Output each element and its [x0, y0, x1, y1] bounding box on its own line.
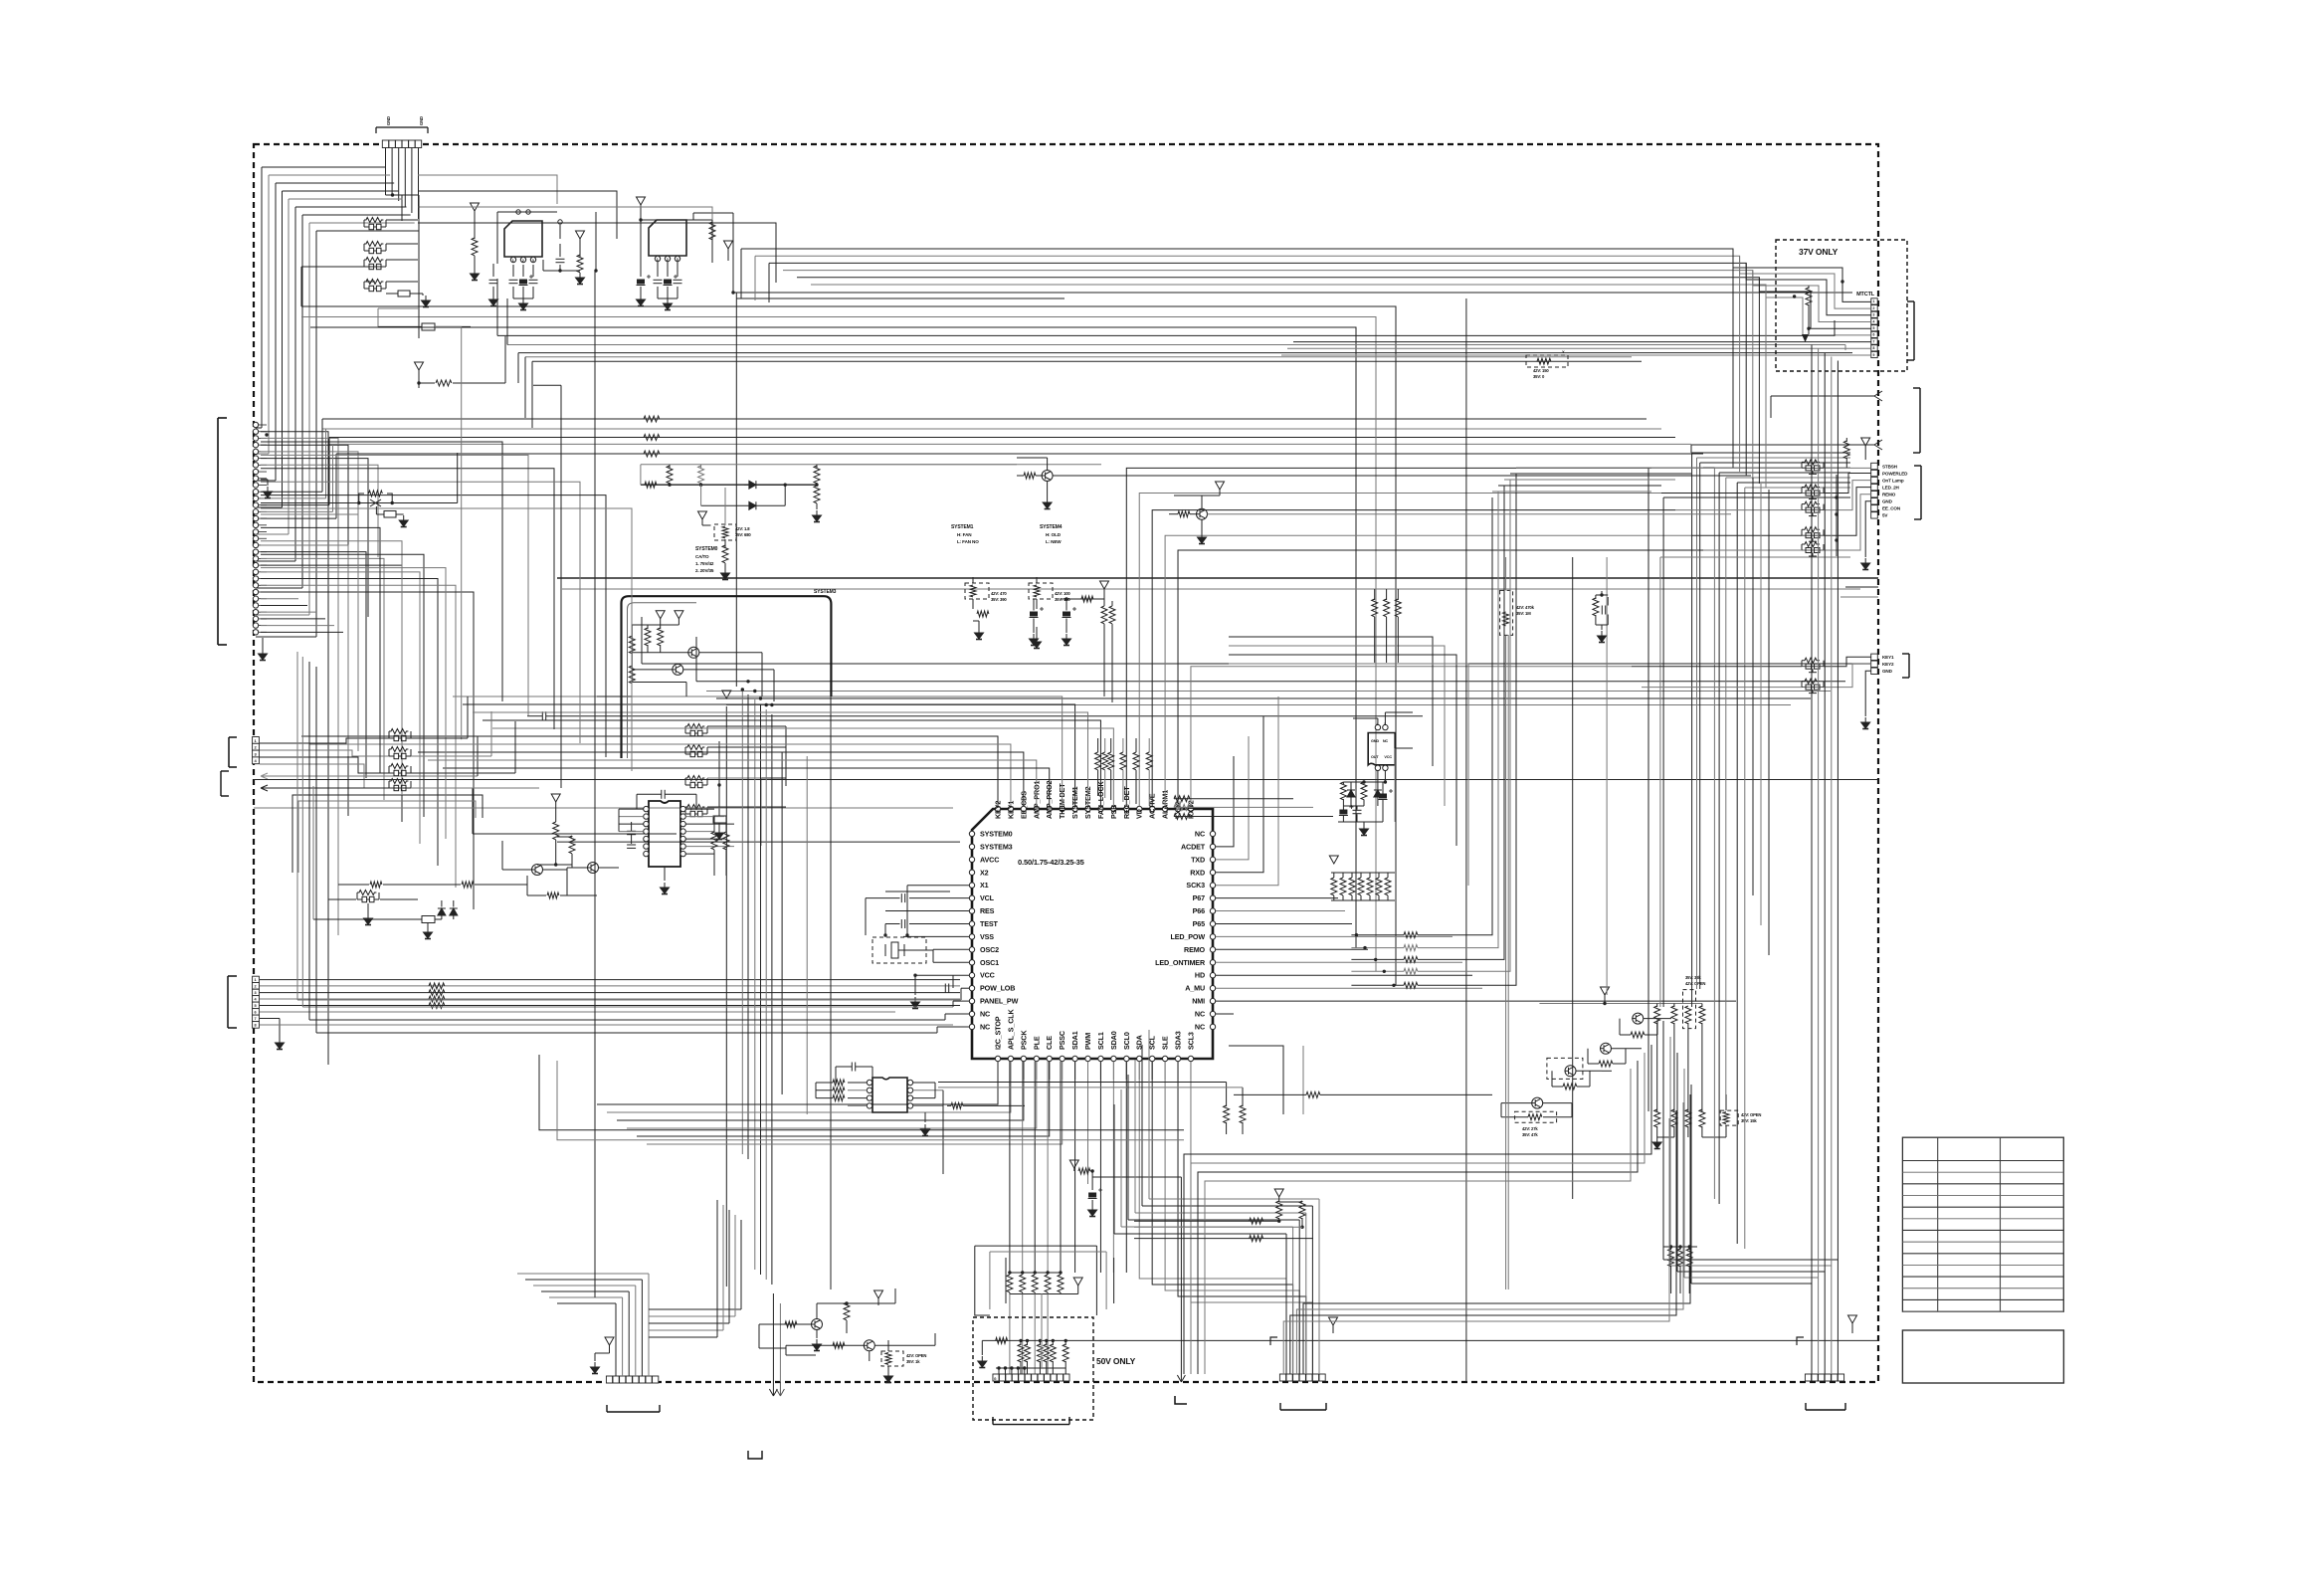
svg-text:KEY1: KEY1	[1882, 655, 1894, 660]
wire bus CN201 bottom stubs	[261, 598, 298, 600]
wire bus E2	[696, 681, 1845, 683]
resistor R-CN501	[1845, 438, 1847, 442]
resistor R-Q202	[1178, 511, 1190, 517]
connector CN501	[1871, 463, 1878, 469]
ground tri chain	[1069, 1160, 1078, 1168]
capacitor C321	[1063, 607, 1077, 618]
wires CN704 up	[1811, 1284, 1813, 1374]
wire POW_LOB	[961, 987, 969, 989]
wire VCC gnd	[914, 975, 916, 995]
wire bus CN201 fan3	[261, 514, 358, 751]
svg-text:PSSC: PSSC	[1058, 1031, 1066, 1050]
wire Q701 circuit	[759, 1323, 812, 1325]
wires U301 right	[685, 808, 714, 810]
ground tri above vline	[722, 691, 731, 698]
resistor R-Q201	[1024, 473, 1036, 479]
svg-text:42V: 150: 42V: 150	[1533, 368, 1549, 373]
svg-text:NC: NC	[1195, 1010, 1205, 1019]
wire RD303	[1036, 577, 1038, 583]
wires FL50x left	[1651, 467, 1802, 469]
svg-text:A_MU: A_MU	[1185, 984, 1205, 993]
resistor R-Q701b	[844, 1302, 850, 1320]
wire PANEL_PW	[953, 1000, 969, 1002]
dashed box QD601	[1547, 1058, 1583, 1079]
resistor rows right of MCU top	[1174, 798, 1293, 800]
wire drop	[504, 336, 506, 383]
ground tri U102b	[724, 241, 733, 249]
svg-text:OSC2: OSC2	[980, 945, 999, 954]
regulator IC U101	[504, 221, 542, 257]
MCU pin top KEY1	[1008, 806, 1013, 811]
wire stub right 1	[1845, 586, 1878, 588]
wires U301 left	[619, 808, 644, 810]
wire SDA3-SCL3 bottom right	[1229, 1046, 1283, 1114]
svg-text:NC: NC	[1195, 830, 1205, 839]
connector CN704 (far right bottom)	[1805, 1374, 1811, 1381]
wire bus right verticals 2	[1752, 478, 1754, 895]
ground G-C102	[513, 297, 533, 299]
svg-text:P66: P66	[1193, 906, 1205, 915]
svg-text:NMI: NMI	[1192, 997, 1205, 1006]
connector CN502 keys	[1871, 654, 1878, 660]
hook CN703	[1270, 1337, 1277, 1345]
resistor network RN101	[364, 218, 386, 230]
wire dionet to Q201	[817, 464, 1017, 466]
jumper J1	[398, 291, 410, 297]
resistor network RN202	[685, 745, 707, 757]
svg-text:TXD: TXD	[1191, 855, 1205, 864]
wire bus CN201 mid group to right	[322, 418, 1646, 420]
wire OSC1	[933, 961, 969, 963]
resistor bank above MCU top pins	[1097, 738, 1099, 752]
svg-text:APL_S_CLK: APL_S_CLK	[1006, 1008, 1015, 1050]
MCU pin right NC	[1210, 1011, 1215, 1016]
resistor R311	[669, 465, 671, 468]
wire stair q2	[1576, 1070, 1602, 1072]
svg-text:CLE: CLE	[1045, 1036, 1054, 1050]
svg-text:X1: X1	[980, 881, 989, 890]
svg-text:LED_2H: LED_2H	[1882, 485, 1900, 490]
wires CN203 out	[260, 979, 960, 981]
wire RN21 verticals	[467, 696, 469, 738]
svg-text:MTCTL: MTCTL	[1856, 292, 1875, 297]
capacitor C108	[667, 262, 669, 277]
ground tri Q30x b	[675, 611, 683, 619]
capacitor C403	[1379, 789, 1394, 800]
resistor R-Q603	[1599, 1061, 1613, 1067]
wire stair q3	[1612, 1048, 1643, 1050]
wire A_MU	[1216, 987, 1482, 989]
wire bus CN201 fanout upper	[261, 432, 328, 1065]
MCU pin bottom SCL3	[1188, 1056, 1193, 1061]
ground U301	[664, 867, 666, 881]
wire CN201 pin2 dot	[265, 433, 268, 436]
svg-text:1. 75V/42: 1. 75V/42	[695, 561, 714, 566]
MCU pin bottom SDA	[1137, 1056, 1142, 1061]
ground CN201 bottom	[262, 638, 264, 649]
svg-text:REMO: REMO	[1882, 493, 1896, 497]
wire bus A3	[310, 327, 1356, 948]
svg-text:NC: NC	[1383, 739, 1389, 743]
wire Q201	[1047, 482, 1049, 498]
filter module FL501	[1802, 460, 1824, 475]
ground tri Q303 bias	[551, 794, 560, 802]
capacitor C402	[1353, 810, 1362, 813]
wire NC16	[937, 1026, 969, 1028]
MCU pin bottom SCL	[1149, 1056, 1154, 1061]
wire bus V-center	[725, 706, 727, 1287]
resistor network RN213	[389, 764, 411, 776]
svg-text:37V ONLY: 37V ONLY	[1799, 247, 1839, 257]
svg-text:50V ONLY: 50V ONLY	[1096, 1356, 1136, 1366]
wire MT down	[1834, 320, 1836, 335]
bracket mid bottom	[748, 1451, 762, 1459]
svg-text:SYSTEM4: SYSTEM4	[1040, 524, 1063, 530]
MCU pin right P66	[1210, 908, 1215, 913]
ground tri U102	[637, 197, 646, 205]
capacitor C-F1	[542, 711, 545, 720]
wire lower rail	[313, 918, 398, 920]
wire P66	[1216, 910, 1345, 912]
bracket MTCTL	[1913, 301, 1915, 360]
wires CN202 to RNET group	[260, 738, 389, 743]
wire vx740 top	[736, 297, 1065, 299]
wire dionet vert	[640, 465, 642, 485]
dashed resistor RS4	[1683, 990, 1696, 1029]
MCU pin right NC	[1210, 831, 1215, 836]
dashed resistor RD401	[1500, 590, 1513, 635]
svg-text:SCL0: SCL0	[1122, 1032, 1131, 1050]
capacitor C-VCC	[935, 974, 969, 976]
wire R71x feed	[1662, 1184, 1664, 1247]
wire bus E4	[716, 697, 1811, 699]
svg-text:VCC: VCC	[1384, 755, 1392, 759]
wire CN203 pin7 gnd	[260, 1018, 280, 1020]
capacitor C101	[492, 264, 494, 277]
MCU pin right HD	[1210, 973, 1215, 978]
svg-text:L: NEW: L: NEW	[1046, 539, 1062, 544]
wire vx463	[461, 326, 463, 739]
MCU pin top REC_DET	[1124, 806, 1129, 811]
node MTCTL inner	[1840, 280, 1843, 283]
wire bus to CN703	[1285, 1233, 1287, 1235]
ground CN201 mid	[261, 479, 268, 481]
ground tri CN701	[605, 1337, 614, 1345]
ground tri RD301	[698, 511, 707, 519]
svg-text:SYSTEM0: SYSTEM0	[695, 546, 718, 552]
wire bus D2	[562, 588, 1860, 590]
svg-text:2: 2	[255, 985, 257, 989]
MCU pin top SYSTEM2	[1085, 806, 1090, 811]
MCU pin left PANEL_PW	[969, 998, 974, 1003]
wire stair q4	[1644, 1018, 1671, 1020]
transistor Q701	[811, 1319, 823, 1330]
svg-text:OnT Lamp: OnT Lamp	[1882, 478, 1904, 483]
svg-text:6: 6	[1873, 333, 1875, 337]
bracket CN501	[1920, 466, 1922, 519]
wire bus A1 left	[300, 267, 302, 306]
resistor R-Q602	[1563, 1084, 1577, 1090]
wire bus A2	[301, 317, 1376, 972]
capacitor C-U302	[852, 1063, 855, 1072]
ground G-C107	[658, 297, 678, 299]
resistor R-Q604	[1631, 1032, 1645, 1038]
wire RD701	[887, 1366, 889, 1371]
svg-text:SCL1: SCL1	[1096, 1032, 1105, 1050]
wire R6xx bottom rail	[1331, 899, 1395, 901]
wire bus B2	[507, 344, 1845, 346]
svg-text:X2: X2	[980, 868, 989, 877]
resistor network RN211	[389, 729, 411, 741]
wire RD302	[972, 577, 974, 583]
wire bus P6x staircase	[1351, 934, 1404, 936]
svg-text:5: 5	[255, 1004, 257, 1008]
wire NMI	[1216, 1000, 1736, 1002]
wire stub right 2	[1840, 596, 1878, 598]
node slash A	[1874, 391, 1882, 401]
transistor Q602	[1565, 1066, 1577, 1077]
node exit arrow A	[261, 775, 478, 777]
wire bus CN701 staircase right	[649, 1308, 741, 1310]
MCU pin left TEST	[969, 921, 974, 926]
resistor R-Q304 bias	[569, 836, 575, 854]
resistor R301	[419, 382, 435, 384]
wire P65	[1216, 923, 1352, 925]
table revision	[1902, 1137, 2063, 1311]
capacitor C-U301 top	[662, 790, 665, 799]
wire bus B3	[518, 352, 1852, 354]
MCU pin right P67	[1210, 895, 1215, 900]
resistor network RN201	[685, 724, 707, 736]
resistor network RN212	[389, 747, 411, 759]
MCU pin top AMP_PRO1	[1034, 806, 1039, 811]
MCU pin bottom SLE	[1162, 1056, 1167, 1061]
transistor Q603	[1600, 1043, 1612, 1054]
MCU pin bottom SCL0	[1124, 1056, 1129, 1061]
MCU pin top PSB	[1111, 806, 1116, 811]
svg-text:42V: 1.8: 42V: 1.8	[735, 526, 750, 531]
wire RD401	[1505, 557, 1507, 590]
svg-text:OUT: OUT	[1371, 755, 1379, 759]
wire bus BR staircase	[1184, 1045, 1651, 1374]
resistor R-MT	[1808, 286, 1810, 289]
wire CN701 lefts	[557, 1302, 616, 1304]
svg-text:35V: 33k: 35V: 33k	[1685, 975, 1701, 980]
svg-text:0.50/1.75-42/3.25-35: 0.50/1.75-42/3.25-35	[1018, 858, 1084, 867]
connector CN703 bottom 7pin	[1279, 1374, 1285, 1381]
MCU pin bottom SDA3	[1175, 1056, 1180, 1061]
connector CN201 left	[217, 418, 219, 645]
jumper J2	[718, 807, 720, 816]
wire bus MCU right pins	[1216, 756, 1234, 847]
resistor row R331	[370, 882, 382, 888]
svg-text:SYSTEM0: SYSTEM0	[980, 830, 1013, 839]
wire bus B drops left	[496, 279, 498, 335]
MCU pin top AMP_PRO2	[1047, 806, 1052, 811]
wire CN502 gnd	[1865, 671, 1871, 716]
capacitor C-VCL	[909, 897, 969, 899]
svg-text:VSS: VSS	[980, 932, 994, 941]
wire bus U302 left	[815, 1083, 817, 1098]
resistor RA-U302	[833, 1080, 845, 1086]
regulator IC U102	[649, 220, 686, 256]
node arrow-below-border	[1177, 1375, 1185, 1382]
bracket right A	[1919, 388, 1921, 453]
wire Q304 circuit	[567, 867, 588, 869]
pull-up circles U101 top	[516, 210, 520, 214]
dashed box 37V ONLY	[1776, 240, 1907, 371]
wire bus D1	[557, 577, 1878, 579]
resistor R401	[1342, 782, 1344, 784]
wire bus right edge bundle	[1811, 345, 1813, 1285]
node exit arrow B	[261, 787, 473, 789]
resistor R322	[1109, 606, 1115, 624]
node arrows below border mid	[769, 1382, 777, 1396]
svg-text:AVCC: AVCC	[980, 855, 999, 864]
resistor R-U301b	[723, 832, 729, 850]
wire Q702 right	[874, 1344, 935, 1346]
wire NC15	[945, 1013, 969, 1015]
MCU pin bottom CLE	[1047, 1056, 1052, 1061]
filter module FL506	[1802, 658, 1824, 673]
svg-text:LED_ONTIMER: LED_ONTIMER	[1155, 958, 1206, 967]
ground RC401	[1601, 625, 1603, 630]
wire NC-R	[1216, 1013, 1234, 1015]
connector CN701 bottom	[606, 1376, 612, 1383]
wire stub	[422, 294, 424, 296]
MCU pin right NMI	[1210, 998, 1215, 1003]
transistor Q202	[1196, 508, 1208, 519]
resistor bank RB70x	[1020, 1340, 1022, 1345]
wire osc join	[932, 949, 934, 962]
dashed box oscillator X601	[872, 937, 926, 963]
resistor R330	[547, 892, 559, 898]
svg-text:KEY2: KEY2	[1882, 662, 1894, 667]
svg-text:SDA1: SDA1	[1070, 1031, 1079, 1050]
MCU pin bottom PLE	[1034, 1056, 1039, 1061]
ground tri T320	[1100, 581, 1109, 589]
capacitor C104	[532, 265, 534, 277]
wire RD301 vert	[724, 488, 726, 525]
wire slashB	[1691, 444, 1874, 446]
resistor col RS5	[1701, 1004, 1703, 1008]
wires U401 bottom	[1377, 771, 1379, 797]
wire U101 top rail	[497, 211, 557, 213]
MCU pin right ACDET	[1210, 844, 1215, 849]
MCU pin bottom APL_S_CLK	[1008, 1056, 1013, 1061]
MCU pin top SYSTEM1	[1072, 806, 1077, 811]
svg-text:3: 3	[255, 991, 257, 995]
transistor Q304	[587, 863, 599, 874]
MCU pin right LED_ONTIMER	[1210, 960, 1215, 965]
MCU pin bottom SDA1	[1072, 1056, 1077, 1061]
MCU pin right REMO	[1210, 947, 1215, 952]
resistor R310	[645, 482, 657, 488]
wires U302 right	[913, 1082, 935, 1084]
MCU pin right P65	[1210, 921, 1215, 926]
filter module FL502	[1802, 485, 1824, 499]
svg-text:VD: VD	[1135, 809, 1144, 819]
ground tri Q202	[1216, 482, 1225, 490]
wire REMO	[1216, 948, 1368, 950]
dashed resistor RD201 on bus	[1526, 355, 1568, 367]
MCU pin bottom PSSC	[1060, 1056, 1065, 1061]
resistor R510	[1078, 1168, 1090, 1174]
ground tri CN501	[1861, 438, 1870, 446]
svg-text:VCC: VCC	[980, 971, 995, 980]
svg-text:ACDET: ACDET	[1181, 842, 1206, 851]
fuse F1	[422, 323, 435, 330]
resistor network RN203	[685, 776, 707, 788]
svg-text:42V: 100: 42V: 100	[1055, 591, 1070, 596]
wire long right from U102	[733, 292, 1852, 294]
transistor Q302	[672, 664, 683, 675]
wire RD301 down	[724, 539, 726, 548]
resistor R321	[1101, 606, 1107, 624]
wire Q202 out right	[1208, 513, 1732, 515]
svg-text:7: 7	[255, 1017, 257, 1021]
diode D401	[1347, 790, 1355, 797]
wire loop rect A	[292, 795, 483, 873]
wire bus A2 left	[300, 316, 302, 318]
svg-text:NC: NC	[980, 1010, 990, 1019]
svg-text:SYSTEM1: SYSTEM1	[951, 524, 974, 530]
ground tri R6xx	[1329, 856, 1338, 864]
wire Q702 circuit	[786, 1344, 864, 1346]
svg-text:35V: 0: 35V: 0	[1533, 374, 1545, 379]
svg-text:42V: 27k: 42V: 27k	[1522, 1126, 1538, 1131]
ground	[422, 296, 431, 307]
diode D301	[749, 481, 756, 489]
wire dionet rail	[641, 484, 817, 486]
wire Q30x bottom	[597, 695, 632, 697]
wire bus under MCU	[539, 1055, 1184, 1130]
svg-text:2: 2	[1873, 306, 1875, 310]
varistor cluster TH201	[261, 502, 359, 504]
wire CN101 drop2	[418, 195, 420, 338]
ground tri bank	[1073, 1278, 1082, 1286]
wire vx835	[830, 696, 832, 1289]
resistor R304	[660, 625, 662, 629]
bracket CN702	[993, 1424, 1069, 1426]
svg-text:GND: GND	[386, 116, 391, 125]
MCU pin right LED_POW	[1210, 934, 1215, 939]
node slash B	[1874, 440, 1882, 450]
capacitor C107	[657, 262, 659, 277]
svg-text:TEST: TEST	[980, 919, 999, 928]
wire U101 right	[595, 212, 597, 271]
wire vx811	[806, 756, 808, 1114]
svg-text:1: 1	[255, 978, 257, 982]
svg-text:OSC1: OSC1	[980, 958, 999, 967]
svg-text:35V: 680: 35V: 680	[735, 532, 751, 537]
ground G-C105	[576, 231, 585, 239]
MCU pin right A_MU	[1210, 985, 1215, 990]
resistor R-U102	[709, 222, 715, 240]
dashed box 50V ONLY	[973, 1317, 1093, 1420]
svg-text:NC: NC	[1195, 1022, 1205, 1031]
svg-text:H: FAN: H: FAN	[957, 532, 972, 537]
wire bus G1 long	[254, 779, 1878, 781]
MCU pin right NC	[1210, 1024, 1215, 1029]
wire stair q1	[1501, 1102, 1532, 1104]
wire bus G3	[557, 841, 960, 843]
svg-text:STBSH: STBSH	[1882, 464, 1898, 469]
dashed resistor RD301	[714, 524, 736, 540]
wires CN702 rail2	[996, 1367, 1065, 1369]
wire bus B right ends join	[1844, 345, 1846, 351]
wires CN703 up	[1285, 1234, 1287, 1374]
